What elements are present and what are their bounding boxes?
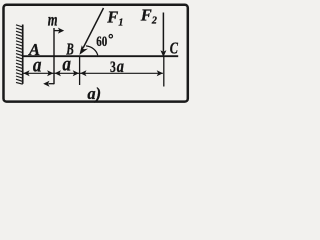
force F1 arrow: [79, 8, 103, 55]
svg-text:C: C: [170, 38, 179, 57]
svg-text:60: 60: [96, 34, 107, 50]
svg-text:m: m: [48, 10, 58, 30]
force F2 arrow: [160, 13, 166, 58]
couple m top arrow: [54, 28, 64, 34]
dim arrow right at C tick: [157, 70, 163, 76]
dim arrows at m tick: [47, 70, 53, 76]
couple m vertical bar: [53, 28, 55, 84]
dimension line: [23, 72, 163, 74]
dim arrows at B tick: [73, 70, 79, 76]
dim arrow left at wall: [23, 70, 29, 76]
svg-text:a: a: [62, 55, 71, 76]
angle arc 60: [86, 46, 98, 55]
tick below C: [163, 57, 165, 87]
border frame: [4, 5, 188, 102]
svg-text:3: 3: [110, 59, 116, 76]
beam: [22, 55, 178, 57]
svg-text:a): a): [87, 84, 101, 103]
wall hatching: [16, 25, 23, 84]
svg-text:a: a: [33, 55, 42, 76]
wall line: [22, 25, 24, 84]
tick below B: [79, 57, 81, 85]
degree circle: [109, 35, 112, 38]
couple m bottom arrow: [43, 81, 54, 87]
svg-text:a: a: [117, 56, 124, 76]
